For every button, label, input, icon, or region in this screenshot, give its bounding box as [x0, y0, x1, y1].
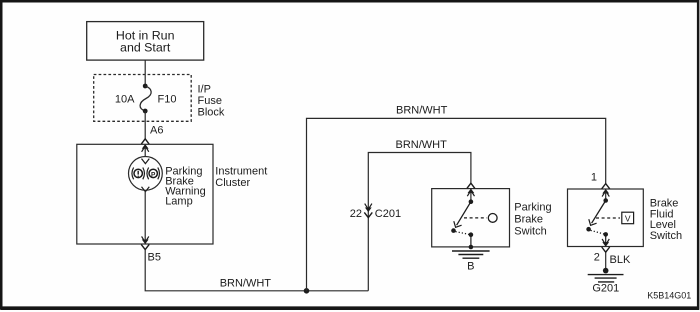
icon (P)	[147, 168, 149, 180]
svg-text:10A: 10A	[115, 93, 135, 105]
svg-text:22: 22	[350, 208, 362, 220]
wire junction up to top run, to brake fluid level switch	[307, 118, 606, 290]
connector C201 pin 22	[350, 204, 401, 220]
brake fluid level switch pin 1 connector	[602, 184, 610, 201]
parking brake switch pin connector	[467, 183, 475, 202]
parking brake switch box	[432, 189, 510, 247]
svg-text:1: 1	[591, 172, 597, 184]
svg-text:Brake: Brake	[514, 214, 543, 226]
svg-text:BLK: BLK	[610, 254, 631, 266]
svg-text:and Start: and Start	[120, 41, 171, 55]
wire C201 branch to parking brake switch	[368, 153, 471, 291]
svg-text:F10: F10	[158, 93, 177, 105]
svg-text:BRN/WHT: BRN/WHT	[220, 278, 272, 290]
wire B5 to bottom run	[145, 250, 368, 291]
svg-text:A6: A6	[150, 125, 163, 137]
I/P Fuse Block label	[198, 84, 225, 119]
wire pin 2 to ground G201	[605, 252, 607, 270]
connector A6 arrow (male)	[142, 145, 148, 149]
junction node	[304, 288, 310, 294]
connector A6 chevron (female)	[141, 139, 149, 144]
svg-text:2: 2	[594, 251, 600, 263]
svg-text:Fuse: Fuse	[198, 95, 222, 107]
svg-text:Block: Block	[198, 106, 225, 118]
brake fluid level switch box	[568, 189, 644, 247]
svg-text:B: B	[467, 261, 474, 273]
svg-text:Switch: Switch	[514, 225, 546, 237]
icon (!)	[132, 168, 134, 180]
brake fluid level switch pin 2 connector	[602, 239, 610, 252]
svg-text:B5: B5	[148, 252, 161, 264]
svg-text:P: P	[151, 171, 156, 178]
svg-text:Lamp: Lamp	[165, 195, 193, 207]
parking brake warning lamp	[129, 157, 163, 191]
fuse F10 10A	[115, 84, 177, 114]
instrument cluster box	[77, 144, 213, 244]
ground G201	[588, 268, 624, 295]
svg-text:I/P: I/P	[198, 84, 211, 96]
parking brake switch internals	[451, 199, 497, 249]
wire lamp to B5	[142, 187, 150, 192]
brake fluid level switch internals	[586, 198, 633, 243]
I/P fuse block dashed box	[94, 75, 192, 122]
svg-text:BRN/WHT: BRN/WHT	[396, 104, 448, 116]
svg-text:K5B14G01: K5B14G01	[647, 290, 691, 300]
power box "Hot in Run and Start"	[87, 22, 204, 61]
svg-text:Parking: Parking	[514, 202, 551, 214]
wire power box to fuse block	[144, 60, 146, 86]
connector B5 arrow	[142, 236, 149, 242]
svg-text:G201: G201	[592, 283, 619, 295]
svg-text:BRN/WHT: BRN/WHT	[396, 139, 448, 151]
svg-text:Instrument: Instrument	[215, 165, 267, 177]
connector B5 chevron	[141, 244, 149, 249]
svg-text:C201: C201	[375, 208, 401, 220]
ground B under parking brake switch	[452, 251, 490, 273]
wire fuse to instrument cluster, node A6	[144, 111, 146, 139]
svg-text:V: V	[625, 213, 631, 223]
svg-text:Switch: Switch	[650, 230, 682, 242]
svg-text:Cluster: Cluster	[215, 177, 250, 189]
arrow into lamp	[142, 159, 150, 164]
